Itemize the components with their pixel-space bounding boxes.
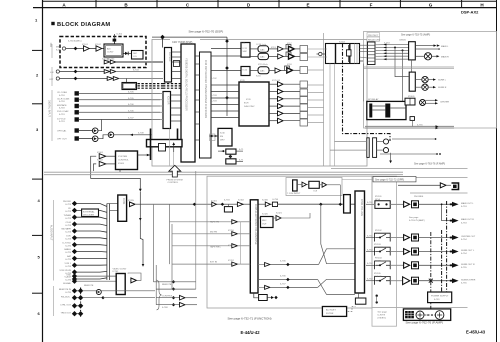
DAC B: [258, 53, 269, 59]
control group bracket: [53, 286, 55, 316]
analog input rows: [59, 201, 107, 282]
svg-text:CD COAX: CD COAX: [57, 91, 68, 94]
svg-text:RELAY DRV: RELAY DRV: [368, 38, 381, 41]
ext in row R from tone: [258, 286, 265, 288]
micro buffer 1: [99, 154, 106, 159]
node: [74, 77, 78, 81]
wire grey to DSP: [116, 61, 163, 63]
svg-text:6-737: 6-737: [280, 283, 286, 285]
svg-text:6-725: 6-725: [65, 245, 71, 247]
svg-text:CONTROL: CONTROL: [118, 159, 129, 161]
jack MIC: [62, 47, 65, 50]
bottom-left rows: [63, 273, 116, 285]
svg-text:IC5 DIR: IC5 DIR: [167, 96, 170, 105]
wire: [89, 48, 96, 50]
svg-text:E: E: [306, 2, 309, 7]
wires below receiver: [329, 64, 331, 167]
svg-text:MIC: MIC: [56, 47, 60, 49]
buffer2 on main: [237, 202, 243, 206]
phones wire: [398, 184, 440, 186]
input group bracket DIGITAL: [51, 90, 53, 141]
svg-text:CONV: CONV: [107, 52, 114, 54]
svg-text:OUT: OUT: [262, 224, 267, 226]
trigger box: [116, 274, 125, 295]
control bus vertical: [150, 129, 152, 161]
wire micro to right: [138, 154, 151, 156]
svg-text:AUDIO INPUT: AUDIO INPUT: [50, 225, 53, 241]
svg-text:6-760 A (MIC): 6-760 A (MIC): [68, 40, 82, 43]
svg-text:See page 6-762-76 (P.AMP): See page 6-762-76 (P.AMP): [406, 321, 443, 325]
svg-text:6-719: 6-719: [59, 121, 65, 123]
wire to arrows: [416, 45, 434, 47]
svg-text:IC311: IC311: [228, 245, 234, 247]
svg-text:TAPE PB: TAPE PB: [210, 221, 220, 224]
svg-text:FILTER: FILTER: [326, 313, 334, 315]
svg-text:VCR 2/DVR: VCR 2/DVR: [59, 270, 71, 272]
wire link: [98, 135, 108, 139]
svg-text:6-753: 6-753: [461, 222, 467, 224]
svg-text:RY203: RY203: [374, 244, 381, 246]
arrow down: [390, 153, 392, 162]
frame row numbers: [35, 18, 41, 317]
optical module B: [92, 136, 98, 142]
frame row ticks: [32, 50, 43, 293]
F.AMP band wires: [392, 138, 435, 140]
wires SRC to DSP: [171, 52, 200, 140]
svg-text:6-755: 6-755: [461, 282, 467, 284]
svg-text:6-755: 6-755: [417, 124, 423, 126]
svg-text:OPT OUT: OPT OUT: [57, 139, 67, 141]
tape loop row 2: [172, 233, 232, 235]
svg-text:POWER SUPPLY: POWER SUPPLY: [431, 296, 449, 298]
speaker terminal circle: [424, 53, 431, 60]
svg-text:IC20: IC20: [246, 99, 251, 101]
volume aux box: [355, 298, 366, 304]
svg-text:IC305 ELECTRONIC VOLUME/TONE: IC305 ELECTRONIC VOLUME/TONE: [254, 204, 257, 245]
optical module A: [92, 128, 98, 134]
X cross on subwoofer row: [429, 279, 433, 283]
svg-text:IC102: IC102: [95, 44, 102, 46]
8ch DAC box: [239, 82, 269, 126]
svg-text:MAIN OUT R: MAIN OUT R: [461, 218, 474, 221]
svg-text:IC12: IC12: [243, 70, 248, 72]
power supply box: [428, 292, 452, 303]
wires receiver to ladder: [360, 45, 368, 58]
arrow down: [139, 189, 142, 192]
svg-text:SYSTEM: SYSTEM: [118, 156, 127, 158]
svg-text:6-726: 6-726: [65, 280, 71, 282]
svg-text:IC321: IC321: [276, 213, 283, 215]
tape loop verticals: [169, 204, 171, 264]
svg-text:DECODER: DECODER: [83, 214, 94, 216]
svg-text:6-753: 6-753: [384, 43, 390, 45]
svg-text:IC17: IC17: [287, 43, 292, 45]
svg-text:D-TV/LD: D-TV/LD: [62, 242, 71, 244]
svg-text:E-44/U-42: E-44/U-42: [241, 330, 261, 335]
video dots: [376, 295, 378, 297]
svg-text:IC30: IC30: [220, 133, 225, 135]
transistor circle 2: [435, 311, 444, 320]
dashed link: [348, 307, 356, 312]
opamp C: [287, 68, 293, 73]
small box on IC right: [210, 134, 216, 141]
wires panel to OPR: [342, 179, 373, 181]
svg-text:IC101: IC101: [82, 44, 89, 46]
svg-text:RS: RS: [220, 136, 224, 138]
svg-text:MIC: MIC: [50, 42, 53, 47]
svg-text:6-736: 6-736: [280, 276, 286, 278]
wires to jumper bars: [335, 141, 367, 143]
svg-text:6-724: 6-724: [65, 239, 71, 241]
opamp A2: [289, 54, 295, 59]
svg-text:RS-232C: RS-232C: [61, 296, 70, 298]
svg-text:6-702: 6-702: [211, 78, 217, 80]
frame top line 2: [33, 7, 497, 9]
node diamonds on wire: [225, 39, 229, 43]
svg-text:CABLE: CABLE: [64, 248, 72, 251]
optical module bottom: [96, 290, 101, 295]
svg-text:IC13: IC13: [271, 47, 276, 49]
remote group brace: [157, 280, 162, 310]
transistor circle 1: [416, 311, 424, 319]
svg-text:6-723: 6-723: [65, 204, 71, 206]
wire: [98, 120, 102, 131]
svg-text:IC16: IC16: [256, 76, 261, 78]
misc labels DSP area: [211, 43, 292, 102]
svg-text:MAIN L: MAIN L: [441, 45, 449, 48]
wire from AD down: [104, 57, 108, 62]
wires to output arrows: [419, 204, 453, 280]
svg-text:See page: See page: [409, 217, 419, 219]
main signal wire: [135, 203, 355, 205]
switch rows 2-5: [366, 196, 403, 285]
svg-text:TRIG OUT: TRIG OUT: [61, 312, 72, 314]
svg-text:6-754: 6-754: [461, 239, 467, 241]
svg-text:IC501 VOLUME: IC501 VOLUME: [360, 199, 363, 217]
svg-text:CD-R COAX: CD-R COAX: [57, 98, 70, 101]
jumper circle 1: [383, 139, 388, 144]
wire with left arrow: [114, 134, 152, 136]
svg-text:IC310: IC310: [228, 230, 235, 232]
tape bus vertical: [240, 222, 242, 264]
svg-text:PHONO: PHONO: [63, 201, 71, 203]
svg-text:6-718: 6-718: [59, 101, 65, 103]
tape loop row 1: [170, 221, 232, 223]
svg-text:SUB W: SUB W: [374, 276, 382, 278]
small buffer on main: [212, 202, 217, 206]
svg-text:REMOTE IN: REMOTE IN: [59, 289, 72, 291]
svg-text:DAC: DAC: [260, 48, 265, 51]
rec select wire from micro: [140, 192, 143, 266]
phones amp: [440, 183, 446, 188]
wire: [59, 71, 104, 73]
bidir arrows: [209, 135, 218, 137]
svg-text:DIGITAL INPUT: DIGITAL INPUT: [48, 100, 51, 117]
svg-text:6-705: 6-705: [128, 92, 134, 94]
dash-dot link wire: [343, 44, 391, 142]
decoder IC U5: [200, 52, 212, 158]
output arrows: [450, 202, 459, 283]
post tone amp: [265, 202, 270, 207]
svg-text:SP B: SP B: [375, 233, 380, 235]
svg-text:PHONES: PHONES: [414, 196, 424, 198]
analog input group bracket: [53, 200, 55, 281]
buffer amp 2: [96, 46, 102, 51]
svg-text:CD: CD: [68, 208, 72, 210]
receiver block: [326, 44, 360, 64]
digital input rows: [57, 91, 160, 123]
svg-text:SP A: SP A: [375, 198, 380, 201]
speaker output bus: [365, 125, 454, 127]
relay driver labels: [367, 33, 380, 37]
OPR label box: [373, 177, 416, 182]
boundary connector ladder: [368, 42, 376, 65]
input arrows into DIR: [152, 93, 163, 119]
DAC A: [258, 46, 269, 52]
svg-text:F: F: [370, 2, 373, 7]
svg-text:SURR L: SURR L: [438, 80, 447, 82]
svg-text:EXT IN: EXT IN: [210, 262, 217, 264]
buffer pair row3: [107, 77, 113, 81]
output labels: [461, 202, 476, 285]
svg-text:IC604: IC604: [339, 41, 346, 43]
dashed bus to DSP: [138, 84, 164, 89]
relay small boxes: [405, 98, 415, 105]
svg-text:RY601: RY601: [408, 96, 415, 98]
buffer amp 1: [84, 46, 90, 51]
SRC2 box: [241, 67, 250, 76]
IC DIR U3: [163, 92, 171, 129]
tone control IC: [250, 200, 258, 293]
svg-text:6-708: 6-708: [138, 132, 144, 134]
svg-text:6-767/9: 6-767/9: [378, 315, 386, 317]
wires DSP to SRC1: [211, 49, 241, 71]
title BLOCK DIAGRAM: [51, 22, 54, 25]
series box on main: [272, 202, 277, 206]
ext amp 2: [322, 182, 327, 187]
frame column letters: [62, 2, 484, 7]
svg-text:REC: REC: [262, 220, 267, 222]
svg-text:SAT: SAT: [67, 255, 72, 258]
DSP IC U4: [181, 44, 195, 162]
svg-text:9-10: 9-10: [56, 50, 61, 52]
svg-text:6-753-75 (AMP): 6-753-75 (AMP): [409, 219, 425, 222]
jack LINE2: [56, 77, 59, 80]
output amps col: [403, 201, 410, 284]
svg-text:6-718: 6-718: [59, 108, 65, 110]
tape loop row 4: [172, 263, 232, 265]
svg-text:CTRL OUT: CTRL OUT: [60, 304, 72, 306]
buffer pair row2: [104, 70, 110, 74]
svg-text:DAC: DAC: [260, 70, 265, 73]
VIDEO strip outline: [372, 176, 397, 326]
svg-text:RY202: RY202: [375, 230, 382, 232]
svg-text:6-706: 6-706: [128, 104, 134, 106]
volume IC: [355, 191, 365, 293]
node dots and drops: [394, 47, 396, 49]
svg-text:IC14 L-ch: IC14 L-ch: [257, 44, 267, 46]
svg-text:6-751: 6-751: [367, 202, 373, 204]
opamp A1: [289, 46, 295, 51]
svg-text:OPT: OPT: [49, 79, 54, 81]
svg-text:MD/TAPE: MD/TAPE: [61, 228, 71, 231]
svg-text:MD/TAPE: MD/TAPE: [57, 104, 67, 107]
svg-text:IC301: IC301: [211, 201, 218, 203]
bus box: [159, 144, 166, 152]
svg-text:RY205: RY205: [374, 273, 381, 275]
svg-text:CONTROL: CONTROL: [162, 296, 173, 298]
DAC C: [258, 67, 269, 74]
svg-text:6-702: 6-702: [117, 34, 123, 36]
DIR box IC: [218, 128, 232, 146]
crystal: [347, 50, 352, 56]
wire labels function area: [210, 199, 286, 285]
svg-text:6-723: 6-723: [65, 218, 71, 220]
svg-text:DAC: DAC: [260, 56, 265, 59]
latch box A: [226, 149, 236, 154]
mid remote rows: [153, 171, 197, 307]
svg-text:6-705: 6-705: [128, 98, 134, 100]
level box: [132, 51, 144, 60]
ext in row mid: [258, 279, 318, 281]
wire: [119, 78, 163, 80]
svg-text:(VIDEO): (VIDEO): [378, 318, 387, 320]
svg-text:6-719: 6-719: [59, 114, 65, 116]
svg-text:PROTECT: PROTECT: [368, 35, 379, 37]
svg-text:6-703: 6-703: [211, 101, 217, 103]
wire feedback loop: [91, 156, 141, 190]
wire: [102, 48, 104, 50]
svg-text:IC18: IC18: [287, 64, 292, 66]
MIC/AD dashed enclosure: [60, 37, 146, 68]
svg-text:A/D: A/D: [107, 48, 111, 51]
svg-text:IC302: IC302: [238, 200, 245, 202]
svg-text:RY204: RY204: [375, 258, 382, 260]
digital IF box: [122, 83, 137, 90]
crossing X wires: [318, 204, 355, 294]
input select IC: [118, 195, 127, 221]
select out amp: [130, 202, 136, 207]
svg-text:SIGNAL: SIGNAL: [63, 282, 72, 285]
svg-text:See page: See page: [378, 312, 388, 314]
separator: [364, 66, 455, 68]
svg-text:MIC: MIC: [133, 53, 137, 55]
wires ladder to bus: [375, 45, 384, 60]
svg-text:CN605: CN605: [399, 40, 407, 42]
node diamond top: [160, 35, 165, 40]
surround terminal 2: [422, 84, 428, 90]
amp A1: [278, 46, 284, 51]
tone box: [309, 181, 320, 188]
svg-text:6-724: 6-724: [65, 232, 71, 234]
P.AMP box: [403, 309, 450, 321]
microcomputer U1: [116, 151, 138, 170]
frame left border: [42, 0, 44, 342]
wires DSP to 8ch DAC: [211, 85, 239, 118]
svg-text:IC320: IC320: [262, 214, 269, 216]
svg-text:6-707: 6-707: [128, 118, 134, 120]
svg-text:6-71: 6-71: [239, 159, 244, 161]
svg-text:MAIN OUT L: MAIN OUT L: [461, 202, 474, 205]
svg-text:IC11: IC11: [241, 43, 246, 45]
svg-text:6-725: 6-725: [65, 259, 71, 261]
svg-text:TAPE REC: TAPE REC: [210, 246, 221, 249]
svg-text:See page 6-732-71 (FUNCTION): See page 6-732-71 (FUNCTION): [228, 317, 272, 321]
svg-text:IC601: IC601: [97, 152, 104, 154]
dashed bus into SRC: [163, 84, 181, 89]
svg-text:IC103 IC104: IC103 IC104: [102, 58, 115, 60]
optical input row A: [75, 128, 79, 132]
block arrow up: [169, 165, 181, 177]
svg-text:CENTER OUT: CENTER OUT: [461, 236, 476, 238]
dash-dot verticals: [441, 230, 443, 292]
remote jack rows: [59, 285, 94, 318]
wire: [116, 71, 163, 73]
A/D converter box: [104, 44, 123, 57]
7.1 EXT IN sub panel: [286, 178, 342, 196]
wire down to digital IF box: [126, 79, 128, 83]
right edge drop wire: [363, 64, 365, 102]
surround terminal 1: [422, 76, 428, 82]
svg-text:IC306: IC306: [262, 200, 269, 202]
wires: [250, 49, 278, 57]
svg-text:DVD: DVD: [66, 236, 71, 238]
pre-volume box: [344, 195, 351, 213]
IC SRC U2: [165, 48, 172, 83]
svg-text:VCR 1: VCR 1: [65, 263, 72, 265]
bus to select box: [107, 203, 118, 205]
svg-text:DSP-AX2: DSP-AX2: [461, 9, 479, 14]
svg-text:6-703: 6-703: [211, 95, 217, 97]
svg-text:6-718: 6-718: [59, 95, 65, 97]
output jack boxes: [412, 201, 419, 284]
svg-text:IC2 SRC: IC2 SRC: [168, 52, 171, 62]
svg-text:6-704: 6-704: [133, 69, 139, 71]
svg-text:DRV: DRV: [220, 140, 225, 142]
svg-text:SRC: SRC: [243, 51, 248, 53]
svg-text:7.1CH INPUT: 7.1CH INPUT: [287, 193, 301, 195]
svg-text:6-751: 6-751: [367, 235, 373, 237]
wire: [106, 155, 116, 157]
ext connector: [293, 180, 298, 191]
tone IC bottom path: [254, 293, 259, 298]
mute box below line: [224, 207, 232, 212]
band lines right: [331, 167, 468, 169]
svg-text:6-724: 6-724: [65, 225, 71, 227]
svg-text:SP RELAY: SP RELAY: [368, 98, 379, 101]
svg-text:6-733: 6-733: [224, 200, 230, 202]
svg-text:RY201: RY201: [375, 196, 382, 198]
svg-text:6-752: 6-752: [367, 279, 373, 281]
svg-text:IC205: IC205: [128, 200, 135, 202]
external decoder box: [82, 209, 99, 217]
SRC1 box: [241, 43, 250, 58]
rec out select box: [261, 217, 274, 228]
wire MAIN to surround box: [411, 60, 413, 72]
DSP PCB outline: [152, 40, 367, 167]
svg-text:8CH: 8CH: [244, 102, 249, 104]
svg-text:6-752: 6-752: [367, 263, 373, 265]
svg-text:6-734: 6-734: [272, 199, 278, 201]
micro buffer 2: [99, 161, 106, 166]
trigger amp: [131, 278, 137, 283]
vertical distribution wire: [226, 37, 228, 116]
node diamond between: [229, 155, 233, 159]
wires receiver to connectors: [308, 49, 328, 123]
switch row 1: [366, 201, 403, 209]
node: [74, 47, 78, 51]
svg-text:MD PB: MD PB: [210, 232, 217, 234]
